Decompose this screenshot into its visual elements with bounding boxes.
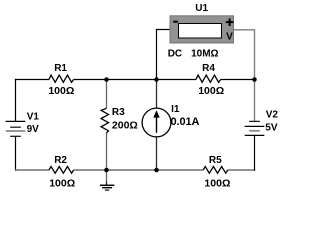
svg-text:100Ω: 100Ω	[198, 85, 224, 97]
node junction top R3	[104, 77, 109, 82]
wire bottom rail right segment	[228, 169, 255, 171]
resistor R3	[101, 107, 138, 133]
svg-text:10MΩ: 10MΩ	[191, 49, 218, 60]
svg-text:V2: V2	[266, 110, 279, 121]
wire voltmeter left lead	[157, 30, 170, 80]
wire top rail middle segment	[74, 79, 196, 81]
svg-text:0.01A: 0.01A	[171, 116, 200, 128]
voltmeter U1	[168, 3, 234, 60]
wire left rail upper	[15, 79, 17, 121]
wire top rail right segment	[221, 79, 256, 81]
wire V2 net lower	[254, 136, 256, 171]
resistor R1	[48, 63, 74, 97]
wire bottom rail left segment	[15, 169, 49, 171]
wire I1 net upper	[156, 80, 158, 109]
svg-text:V1: V1	[27, 112, 40, 123]
battery V2	[245, 110, 279, 136]
current source I1	[142, 104, 199, 137]
svg-text:200Ω: 200Ω	[112, 119, 138, 131]
wire R3 net lower	[106, 133, 108, 170]
node junction bottom ground	[104, 168, 109, 173]
wire left rail lower	[15, 137, 17, 171]
resistor R4	[196, 63, 224, 97]
wire V2 net upper	[254, 80, 256, 122]
svg-text:R5: R5	[209, 155, 222, 166]
svg-text:R3: R3	[112, 107, 125, 118]
resistor R2	[49, 155, 75, 190]
node junction top I1	[154, 77, 159, 82]
svg-text:5V: 5V	[265, 122, 278, 133]
node junction bottom I1	[154, 168, 159, 173]
svg-text:R2: R2	[54, 155, 67, 166]
wire top rail left segment	[15, 79, 49, 81]
svg-text:DC: DC	[168, 49, 182, 60]
svg-text:100Ω: 100Ω	[49, 177, 75, 189]
svg-text:9V: 9V	[27, 124, 40, 135]
svg-text:U1: U1	[195, 3, 208, 14]
svg-text:100Ω: 100Ω	[204, 177, 230, 189]
wire bottom rail middle segment	[74, 169, 204, 171]
wire ground stem	[106, 170, 108, 182]
svg-text:R4: R4	[202, 63, 215, 74]
battery V1	[6, 112, 40, 137]
resistor R5	[203, 155, 230, 190]
svg-text:100Ω: 100Ω	[48, 85, 74, 97]
svg-text:I1: I1	[171, 104, 180, 115]
wire voltmeter right lead	[234, 30, 255, 80]
node junction top V2	[252, 77, 257, 82]
ground	[100, 182, 114, 191]
svg-text:V: V	[226, 32, 233, 43]
wire I1 net lower	[156, 137, 158, 170]
svg-text:R1: R1	[54, 63, 67, 74]
wire R3 net upper	[106, 80, 108, 109]
